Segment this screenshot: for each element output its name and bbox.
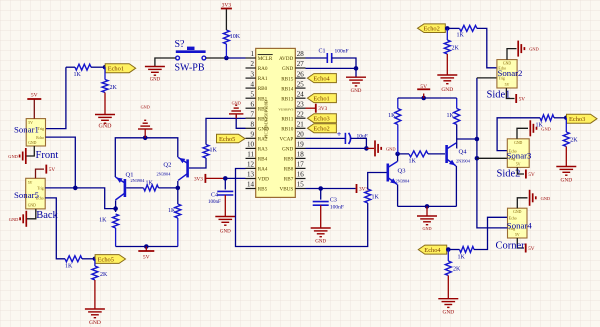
svg-text:1: 1	[251, 50, 255, 58]
power 5V (Q3/Q4 rail)	[417, 84, 430, 90]
wire switch to pin1 junction	[206, 57, 227, 59]
svg-text:SW-PB: SW-PB	[175, 63, 205, 74]
svg-text:GND: GND	[282, 66, 293, 72]
svg-text:Side1: Side1	[487, 90, 511, 101]
transistor Q3 2N3904	[388, 162, 410, 185]
wire trig bus vertical	[477, 78, 508, 228]
svg-text:2K: 2K	[453, 267, 461, 273]
svg-text:GND: GND	[232, 101, 241, 106]
IC U1 PIC32MX250F128B	[246, 48, 306, 197]
port Echo1 (top-left)	[105, 64, 136, 73]
svg-text:25: 25	[297, 80, 305, 88]
resistor 2K (Echo1 divider)	[102, 67, 118, 92]
svg-text:Echo3: Echo3	[569, 116, 585, 123]
svg-text:Q2: Q2	[163, 162, 171, 169]
ground GND (Sonar3, bar style)	[530, 120, 551, 136]
svg-text:GND: GND	[315, 240, 326, 245]
wire 1K to Echo5 junction	[82, 258, 95, 260]
svg-text:C4: C4	[211, 193, 218, 199]
wire Sonar2 5V pin	[506, 88, 514, 99]
power 5V (Sonar3)	[526, 170, 535, 179]
wire 3V3 to junction	[205, 177, 225, 179]
svg-text:100nF: 100nF	[335, 49, 349, 55]
sonar module Sonar2	[497, 60, 523, 88]
svg-text:5V: 5V	[143, 255, 150, 261]
wire Q4 emitter	[455, 166, 457, 206]
junction Q2 collector	[176, 186, 181, 191]
svg-text:14: 14	[247, 181, 255, 189]
port Echo2 (top-right)	[418, 24, 446, 33]
wire Echo1 resistor to junction	[91, 66, 105, 68]
svg-text:GND: GND	[503, 62, 511, 66]
svg-text:1K: 1K	[65, 264, 73, 270]
svg-text:RB10: RB10	[281, 127, 294, 133]
svg-text:GND: GND	[351, 89, 362, 94]
resistor 10K (MCLR pullup)	[223, 30, 240, 58]
svg-text:RA1: RA1	[258, 76, 268, 82]
ground GND (Echo1 divider)	[95, 115, 115, 130]
wire Sonar3 5V pin	[517, 167, 524, 174]
junction Q1 collector	[113, 206, 118, 211]
junction Echo4	[446, 247, 451, 252]
ground GND (Q1/Q2 rail, inverted)	[138, 105, 152, 138]
ground GND (Sonar2, bar style)	[518, 41, 539, 57]
svg-text:15: 15	[297, 181, 305, 189]
svg-text:Q3: Q3	[398, 168, 406, 175]
wire RB3 to Q2 base resistor	[206, 118, 246, 144]
svg-text:Sonar3: Sonar3	[507, 151, 533, 161]
wire 5V stub (bottom rail)	[145, 247, 147, 252]
svg-text:1K: 1K	[168, 208, 176, 214]
wire 5V stub (Q3/Q4 rail)	[423, 94, 425, 99]
svg-text:20: 20	[297, 131, 305, 139]
ground GND (Sonar5, bar style)	[9, 211, 27, 227]
wire C3 to GND	[320, 205, 322, 228]
svg-text:26: 26	[297, 70, 305, 78]
svg-text:9: 9	[251, 131, 255, 139]
wire Echo2 to 1K	[445, 27, 459, 29]
svg-text:GND: GND	[441, 87, 453, 93]
wire pin20 VCAP to C2	[306, 137, 346, 139]
wire 2K to GND (Echo4)	[447, 276, 449, 299]
power 5V (Sonar4)	[526, 244, 535, 253]
wire pin15 VBUS	[306, 188, 356, 190]
svg-text:GND: GND	[89, 320, 101, 326]
ground GND (C4)	[215, 217, 235, 235]
wire Q2 base	[189, 158, 206, 168]
svg-text:1K: 1K	[458, 255, 466, 261]
svg-text:RB11: RB11	[281, 116, 293, 122]
wire Sonar1 Echo to Q1 net	[46, 137, 76, 188]
resistor 2K (Echo4 divider)	[445, 250, 461, 276]
wire Sonar1 5V pin	[33, 99, 35, 119]
ground GND (Echo2 divider)	[437, 75, 457, 93]
wire Sonar1 GND pin	[27, 146, 35, 156]
svg-text:1K: 1K	[457, 33, 465, 39]
svg-text:RB8: RB8	[284, 167, 294, 173]
svg-text:2: 2	[251, 60, 255, 68]
junction trig bus / Sonar3	[475, 156, 480, 161]
resistor 1K (Q1-Q2 link)	[144, 181, 159, 191]
wire Q3 base resistor up	[368, 173, 387, 190]
wire Sonar5 Echo down	[45, 198, 65, 259]
svg-text:Front: Front	[36, 150, 59, 161]
svg-text:GND: GND	[560, 178, 572, 184]
svg-text:5V: 5V	[519, 97, 526, 103]
svg-text:19: 19	[297, 141, 305, 149]
svg-text:GND: GND	[8, 154, 18, 159]
capacitor C4 100nF	[208, 191, 233, 205]
svg-text:2K: 2K	[570, 138, 578, 144]
power 3V3 (VBUS)	[357, 184, 369, 193]
wire pin27 GND	[306, 67, 357, 69]
junction Echo3	[564, 116, 569, 121]
svg-text:2N3904: 2N3904	[157, 172, 172, 177]
svg-text:3V3: 3V3	[194, 176, 203, 182]
svg-text:Echo5: Echo5	[219, 136, 235, 143]
svg-text:3V3: 3V3	[318, 106, 327, 112]
ground GND (C3)	[311, 228, 331, 245]
wire Q1 collector	[115, 201, 117, 213]
junction trig bus / Q4	[475, 137, 480, 142]
wire Q3/Q4 emitter rail	[398, 205, 457, 207]
power 3V3 (VUSB3V3)	[316, 104, 328, 113]
port Echo3 (pin22)	[307, 114, 336, 123]
resistor 1K (Echo4 divider)	[458, 247, 475, 261]
svg-text:4: 4	[251, 80, 255, 88]
switch S? SW-PB	[175, 39, 206, 74]
svg-text:GND: GND	[541, 196, 551, 201]
svg-text:Echo1: Echo1	[108, 66, 124, 73]
transistor Q2 2N3904	[157, 157, 188, 180]
resistor 1K (Q3 base)	[365, 189, 380, 203]
junction switch/pullup/pin1	[224, 56, 229, 61]
resistor 1K (Q2 base)	[203, 145, 218, 159]
svg-text:2K: 2K	[452, 46, 460, 52]
svg-text:Corner: Corner	[496, 241, 526, 252]
power 5V (Sonar1)	[27, 93, 41, 100]
ground GND (Sonar4, bar style)	[530, 190, 551, 206]
junction pin15/C3	[318, 186, 323, 191]
wire Sonar5 Trig / step wire to Q1	[45, 188, 115, 209]
svg-text:Echo5: Echo5	[98, 256, 114, 263]
junction Sonar nets	[73, 186, 78, 191]
wire 2K to GND (Echo1)	[104, 93, 106, 115]
svg-text:5V: 5V	[28, 181, 33, 185]
svg-text:Echo4: Echo4	[424, 247, 441, 254]
sonar module Sonar4	[507, 208, 533, 238]
svg-text:Back: Back	[36, 210, 58, 221]
junction Echo5	[93, 257, 98, 262]
wire junction to chip pin 1	[226, 57, 245, 59]
port Echo5 (bottom-left)	[95, 255, 125, 264]
svg-text:2K: 2K	[110, 85, 118, 91]
svg-text:1K: 1K	[210, 148, 218, 154]
svg-text:GND: GND	[99, 124, 113, 130]
resistor 1K (Echo2 divider)	[457, 25, 478, 38]
svg-text:GND: GND	[141, 105, 150, 110]
svg-text:RB14: RB14	[281, 86, 294, 92]
svg-text:RA4: RA4	[258, 167, 268, 173]
svg-text:1K: 1K	[372, 195, 380, 201]
ground GND (Q3/Q4 emitters)	[417, 206, 437, 231]
ground GND (chip AVDD)	[346, 77, 366, 94]
resistor 1K (Q4 base)	[409, 151, 429, 165]
svg-text:GND: GND	[422, 226, 431, 231]
svg-text:100nF: 100nF	[208, 200, 221, 205]
sonar module Sonar5	[14, 178, 45, 209]
resistor 1K (Echo1 divider)	[74, 64, 92, 78]
svg-text:Echo4: Echo4	[313, 75, 330, 82]
svg-text:RA3: RA3	[258, 147, 268, 153]
wire 2K to GND (Echo2)	[446, 54, 448, 75]
wire Q3 emitter	[397, 185, 399, 207]
svg-text:RB9: RB9	[284, 157, 294, 163]
wire Echo4 to 1K	[447, 249, 460, 251]
resistor 1K (Q3 pullup)	[388, 98, 401, 154]
svg-text:1K: 1K	[409, 159, 417, 165]
ground GND (Echo4 divider)	[438, 299, 458, 316]
svg-text:5: 5	[251, 90, 255, 98]
sonar module Sonar3	[507, 139, 533, 168]
wire pin8 GND	[236, 115, 245, 128]
svg-text:GND: GND	[220, 230, 231, 235]
sonar module Sonar1	[14, 119, 46, 146]
resistor 2K (Echo3 divider)	[563, 118, 578, 147]
svg-text:GND: GND	[529, 47, 539, 52]
svg-text:C1: C1	[319, 49, 326, 55]
svg-text:23: 23	[297, 100, 305, 108]
svg-text:MCLR: MCLR	[258, 56, 273, 62]
capacitor C2 10uF (polarized)	[337, 130, 368, 144]
svg-text:8: 8	[251, 121, 255, 129]
svg-text:5V: 5V	[49, 167, 56, 173]
svg-text:Echo3: Echo3	[313, 116, 329, 123]
svg-text:1K: 1K	[74, 72, 82, 78]
svg-text:10K: 10K	[230, 34, 241, 40]
svg-text:13: 13	[247, 171, 255, 179]
svg-text:24: 24	[297, 90, 305, 98]
port Echo1 (pin24)	[307, 94, 336, 103]
power 3V3 (VDD)	[194, 174, 205, 183]
junction bottom rail 5V	[144, 244, 149, 249]
resistor 1K (Echo5 divider)	[65, 256, 82, 270]
wire Q4 base	[428, 153, 445, 155]
svg-text:Sonar4: Sonar4	[507, 221, 533, 231]
capacitor C1 100nF	[319, 49, 349, 64]
wire Sonar4 5V pin	[517, 238, 524, 248]
ground GND (Echo5 divider)	[85, 309, 105, 326]
svg-text:S?: S?	[175, 39, 186, 50]
svg-text:RB5: RB5	[258, 187, 268, 193]
ground GND (switch)	[145, 67, 165, 83]
resistor 1K (Q4 pullup)	[446, 98, 459, 125]
svg-text:1K: 1K	[146, 181, 154, 187]
wire 2K to GND (Echo5)	[94, 280, 96, 309]
wire 2K to GND (Echo3)	[565, 147, 567, 167]
svg-text:RB13: RB13	[281, 96, 294, 102]
port Echo2 (pin21)	[307, 124, 336, 133]
port Echo4 (pin26)	[307, 74, 336, 83]
label Side2	[497, 169, 521, 180]
svg-text:2N3904: 2N3904	[131, 178, 146, 183]
svg-text:Echo: Echo	[36, 136, 44, 140]
svg-text:+: +	[337, 130, 342, 139]
svg-text:GND: GND	[28, 204, 36, 208]
svg-text:RB4: RB4	[258, 157, 268, 163]
svg-text:VBUS: VBUS	[279, 187, 293, 193]
svg-text:1K: 1K	[388, 113, 396, 119]
wire RA4 to Q3 base (long route)	[236, 169, 368, 247]
wire Q1/Q2 bottom rail	[116, 246, 178, 248]
svg-text:GND: GND	[9, 217, 19, 222]
svg-text:5V: 5V	[31, 93, 38, 99]
wire pin28 AVDD to C1	[306, 57, 328, 59]
svg-text:Sonar1: Sonar1	[14, 125, 39, 135]
wire 1K to Echo3 junction	[554, 117, 566, 119]
wire C4 to GND	[224, 195, 226, 217]
wire Q3 collector	[398, 154, 409, 162]
svg-text:12: 12	[247, 161, 255, 169]
svg-text:27: 27	[297, 60, 305, 68]
svg-text:2N3904: 2N3904	[396, 179, 411, 184]
resistor 1K (Q1 collector)	[99, 214, 118, 247]
label Front	[36, 150, 59, 161]
svg-text:GND: GND	[386, 146, 396, 151]
svg-text:Echo2: Echo2	[424, 26, 440, 33]
svg-text:RB15: RB15	[281, 76, 294, 82]
svg-text:Echo1: Echo1	[313, 95, 329, 102]
resistor 1K (Echo3 divider)	[536, 115, 555, 129]
wire Q2 collector	[177, 181, 179, 204]
svg-text:1K: 1K	[99, 218, 107, 224]
port Echo3 (right)	[567, 114, 598, 123]
svg-text:3V3: 3V3	[222, 3, 232, 9]
ground GND (Echo3 divider)	[556, 167, 576, 184]
power 5V (Sonar5)	[46, 165, 55, 174]
svg-text:PIC32MX250F128B: PIC32MX250F128B	[264, 100, 269, 139]
svg-text:Sonar5: Sonar5	[14, 190, 40, 200]
junction Echo2	[445, 26, 450, 31]
svg-text:6: 6	[251, 100, 255, 108]
svg-text:17: 17	[297, 161, 305, 169]
svg-text:18: 18	[297, 151, 305, 159]
wire Sonar3 GND pin	[517, 128, 528, 139]
junction emitter rail GND	[425, 204, 430, 209]
label Back	[36, 210, 58, 221]
wire Sonar5 5V pin	[36, 169, 45, 178]
wire Sonar3 Echo up	[497, 118, 540, 151]
wire 1K to Sonar2 Echo	[477, 28, 497, 67]
wire Echo1 down to Sonar1 Trig	[46, 67, 66, 128]
svg-text:RB7: RB7	[284, 177, 294, 183]
svg-text:5V: 5V	[420, 84, 427, 90]
junction 5V rail	[421, 96, 426, 101]
power 3V3 (MCLR pullup)	[221, 3, 232, 9]
capacitor C3 100nF	[313, 198, 344, 211]
svg-text:Sonar2: Sonar2	[498, 68, 523, 78]
port Echo5 (pin9)	[217, 134, 246, 143]
svg-text:RB0: RB0	[258, 86, 268, 92]
svg-text:3: 3	[251, 70, 255, 78]
svg-text:C3: C3	[330, 198, 337, 204]
junction pin27/C1 gnd	[354, 66, 359, 71]
svg-text:GND: GND	[513, 210, 521, 214]
svg-text:GND: GND	[442, 310, 454, 316]
label Side1	[487, 90, 511, 101]
wire Q4 collector	[455, 125, 457, 149]
resistor 2K (Echo2 divider)	[444, 28, 459, 54]
wire C2 to junction	[351, 138, 367, 148]
wire Q1 base	[126, 187, 143, 189]
junction Q3 collector	[395, 152, 400, 157]
wire to GND bar (pin19)	[366, 147, 374, 149]
svg-text:GND: GND	[541, 126, 551, 131]
svg-text:2N3904: 2N3904	[456, 159, 471, 164]
svg-text:11: 11	[247, 151, 254, 159]
wire Sonar4 GND pin	[517, 198, 527, 208]
wire 1K up to Sonar4 Echo	[474, 217, 508, 249]
wire Q1/Q2 top rail	[115, 138, 178, 177]
svg-text:5V: 5V	[516, 162, 521, 166]
ground GND (pins 7-8, inverted)	[229, 101, 243, 119]
junction VDD/C4	[223, 176, 228, 181]
wire Sonar5 GND pin	[27, 209, 36, 219]
wire Sonar3 Trig	[477, 157, 507, 159]
wire C4 top lead	[224, 178, 226, 189]
resistor 2K (Echo5 divider)	[92, 259, 108, 280]
resistor 1K (Q2 collector)	[168, 204, 181, 247]
svg-text:2K: 2K	[100, 272, 108, 278]
svg-text:GND: GND	[150, 78, 161, 83]
wire Q3/Q4 5V rail	[398, 97, 457, 99]
svg-text:GND: GND	[514, 141, 522, 145]
junction top rail GND	[143, 136, 148, 141]
svg-text:28: 28	[297, 50, 305, 58]
wire pin19 GND	[306, 147, 367, 149]
svg-text:GND: GND	[28, 141, 36, 145]
wire Sonar2 Trig	[477, 77, 497, 79]
label Corner	[496, 241, 526, 252]
svg-text:VCAP: VCAP	[279, 137, 293, 143]
wire C1 to GND vertical	[332, 58, 356, 77]
svg-text:Echo2: Echo2	[313, 126, 329, 133]
svg-text:10: 10	[247, 141, 255, 149]
svg-text:1K: 1K	[446, 113, 454, 119]
svg-text:AVDD: AVDD	[279, 56, 294, 62]
transistor Q1 2N3904	[115, 172, 145, 201]
svg-text:5V: 5V	[528, 172, 535, 178]
svg-text:21: 21	[297, 121, 305, 129]
junction pin19/C2	[364, 146, 369, 151]
transistor Q4 2N3904	[447, 143, 471, 166]
svg-text:RA0: RA0	[258, 66, 268, 72]
power 5V (Q1/Q2 rail)	[138, 251, 154, 261]
wire link resistor to Q2 collector	[159, 187, 178, 189]
junction Echo1	[103, 65, 108, 70]
svg-text:16: 16	[297, 171, 305, 179]
svg-text:5V: 5V	[515, 233, 520, 237]
wire 3V3 to 10K	[225, 9, 227, 31]
svg-text:7: 7	[251, 110, 255, 118]
wire switch to GND	[155, 58, 176, 67]
wire Q4 collector to trig bus	[457, 138, 477, 140]
svg-text:GND: GND	[282, 147, 293, 153]
port Echo4 (bottom-right)	[418, 245, 446, 254]
svg-text:5V: 5V	[528, 246, 535, 252]
wire C3 top lead	[320, 189, 322, 200]
svg-text:100nF: 100nF	[330, 205, 344, 211]
